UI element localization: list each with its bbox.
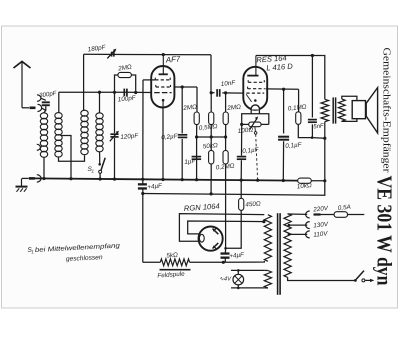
- svg-text:450Ω: 450Ω: [245, 200, 261, 208]
- antenna: [14, 62, 31, 69]
- socket (antenna direct): [38, 104, 42, 111]
- tube U2 screen (dashed): [247, 80, 249, 82]
- wire bus-to-B+ link: [210, 180, 212, 194]
- wire regen left leg: [83, 54, 85, 110]
- tube U2 grid-filament lead: [246, 94, 251, 102]
- capacitor 4uF (electrolytic): [142, 179, 144, 184]
- junction lamp-top: [237, 269, 240, 272]
- svg-text:AF7: AF7: [165, 54, 182, 64]
- socket (antenna via capacitor): [37, 95, 41, 102]
- tube U2 RES164 envelope: [243, 67, 267, 110]
- wire B+ return: [143, 181, 325, 195]
- wire grid line: [59, 91, 115, 93]
- socket 110V: [306, 231, 310, 238]
- transformer winding (rectifier filament): [264, 215, 271, 262]
- capacitor 10nF: [216, 89, 218, 97]
- svg-text:∿4V: ∿4V: [219, 277, 232, 283]
- svg-text:Gemeinschafts-Empfänger: Gemeinschafts-Empfänger: [380, 48, 391, 174]
- wire socket to capacitor: [41, 98, 46, 100]
- junction rect-output/450R: [224, 247, 227, 250]
- wire rectifier output: [225, 195, 227, 248]
- junction 100pF/gridleak: [134, 91, 137, 94]
- junction inner-loop: [262, 220, 265, 223]
- switch (mains): [354, 279, 357, 282]
- junction node/1uF: [195, 135, 198, 138]
- junction bus/S1: [99, 177, 102, 180]
- wire filament loop outer: [179, 214, 264, 242]
- resistor 0.5M: [210, 93, 212, 112]
- svg-text:0,5A: 0,5A: [337, 204, 351, 212]
- junction bus/0.1uF-anode: [282, 179, 285, 182]
- wire tap 220V: [288, 213, 308, 215]
- svg-text:1µF: 1µF: [184, 158, 197, 166]
- junction topline/5nF: [311, 54, 314, 57]
- wire to heater winding: [223, 261, 264, 262]
- transformer core: [277, 213, 279, 295]
- svg-text:5nF: 5nF: [313, 123, 324, 130]
- potentiometer 100R (hum): [242, 123, 249, 125]
- junction 5nF/0.1M: [311, 136, 314, 139]
- underline Feldspule: [160, 269, 191, 271]
- wire 5k to 4uF node: [190, 261, 224, 263]
- junction filament/bypass: [240, 123, 243, 126]
- junction node/50k: [210, 135, 213, 138]
- junction bus/antenna-coil: [42, 177, 45, 180]
- wire antenna to plug: [22, 107, 29, 109]
- wire to field node: [312, 137, 325, 140]
- wire lamp top: [231, 269, 264, 271]
- capacitor 5nF: [311, 56, 313, 118]
- tube U3 RGN1064 envelope: [199, 227, 223, 251]
- tube U3 anode strokes: [213, 229, 219, 235]
- tube U1 cathode: [162, 99, 165, 102]
- junction grid/LW-coil: [98, 91, 101, 94]
- junction bus/cathode: [161, 178, 164, 181]
- tube U1 AF7 envelope: [151, 66, 174, 108]
- resistor 5k (Feldspule): [160, 259, 189, 266]
- coil (reaction winding): [81, 110, 88, 116]
- wire 10nF to RES grid: [222, 92, 244, 94]
- wire bus to end-node: [311, 180, 325, 182]
- resistor 50k: [209, 150, 214, 164]
- junction regen/AF7-topcap: [162, 53, 165, 56]
- earth plug: [22, 177, 29, 179]
- wire pilot winding leads: [264, 269, 268, 271]
- wire lamp bottom: [231, 287, 264, 289]
- wire regen right leg: [210, 55, 212, 93]
- coil (antenna winding): [40, 113, 47, 119]
- switch S1: [98, 163, 101, 166]
- junction bus/coil-tap: [69, 177, 72, 180]
- transformer winding (pilot): [264, 271, 271, 289]
- wire primary bottom: [288, 277, 356, 280]
- resistor 2M (RES grid leak): [225, 93, 227, 112]
- junction bus/0.1uF: [181, 178, 184, 181]
- socket 220V: [306, 211, 310, 218]
- transformer winding (mains primary): [284, 214, 291, 278]
- plug 220V: [314, 213, 321, 215]
- variable capacitor 120pF (tuning): [114, 92, 116, 133]
- junction lamp-bottom: [237, 287, 240, 290]
- capacitor 0.1uF (anode): [181, 87, 183, 133]
- wire RES top line: [256, 55, 322, 57]
- wire ground bus: [35, 178, 298, 180]
- junction bus/4uF-line: [141, 178, 144, 181]
- junction bus-end: [323, 179, 326, 182]
- svg-text:VE 301 W dyn: VE 301 W dyn: [373, 176, 397, 286]
- resistor 450R: [240, 180, 242, 198]
- wire anode RES: [266, 88, 299, 90]
- socket (antenna tap): [37, 144, 41, 150]
- junction bus/tuning-cap: [113, 178, 116, 181]
- resistor 10k (in bus): [298, 178, 312, 183]
- wire secondary to voice coil: [342, 96, 357, 100]
- capacitor 1uF: [196, 137, 198, 180]
- junction 10nF/0.5M: [210, 91, 213, 94]
- wire divider node: [197, 136, 226, 138]
- lamp 4V: [233, 274, 244, 285]
- coil (long-wave winding): [96, 113, 103, 119]
- capacitor 4uF (electrolytic 2): [224, 248, 226, 253]
- tube U3 filament nub: [199, 234, 204, 242]
- junction bus/0.1uF-RES: [240, 179, 243, 182]
- tube U1 control grid bar: [154, 92, 171, 94]
- junction bus/hum-pot: [256, 179, 259, 182]
- junction B+/bus link: [210, 192, 213, 195]
- capacitor 100pF: [123, 89, 125, 97]
- junction grid/tuning-cap: [113, 91, 116, 94]
- junction anode/0.1uF: [181, 85, 184, 88]
- wire filament loop: [242, 114, 269, 125]
- junction 10nF/gridleak-RES: [224, 91, 227, 94]
- wire filament loop inner: [188, 221, 265, 234]
- resistor 0.1M: [298, 89, 300, 112]
- tube U1 anode (dashed): [155, 85, 157, 87]
- wire capacitor to coil: [44, 106, 46, 113]
- capacitor 300pF: [42, 101, 50, 103]
- wire screen-feed drop: [142, 80, 144, 179]
- wire B+ to field resistor: [143, 261, 161, 263]
- wire filament stubs: [250, 110, 252, 114]
- trimmer capacitor 180pF: [111, 52, 113, 57]
- junction field/feed: [323, 137, 326, 140]
- junction node/0.2M: [224, 135, 227, 138]
- tube U2 filament dot: [254, 99, 257, 102]
- tube U1 grid g3 (dashed): [154, 78, 156, 80]
- wire cathode to bus: [162, 108, 164, 180]
- capacitor 0.1uF (filament bypass): [241, 124, 243, 155]
- tube U2 top cap grid: [247, 75, 258, 77]
- wire screen feed: [143, 79, 155, 81]
- wire coil tap to bus: [61, 136, 72, 179]
- fuse 0.5A: [321, 214, 335, 216]
- resistor 0.2M: [223, 150, 228, 164]
- junction bus/1uF: [195, 178, 198, 181]
- junction anode-RES/0.1uF: [282, 88, 285, 91]
- wire tap 110V: [288, 233, 291, 236]
- plug (antenna): [30, 107, 36, 110]
- coil (grid winding): [55, 113, 62, 119]
- output transformer core: [332, 97, 334, 123]
- resistor 2M (anode load): [196, 87, 198, 112]
- choke (speaker field winding): [322, 56, 325, 100]
- loudspeaker: [352, 101, 365, 119]
- wire regen top line: [84, 53, 211, 56]
- tube U1 top cap grid: [159, 73, 168, 75]
- socket 130V: [306, 222, 310, 229]
- junction 4uF/B+ line: [141, 192, 144, 195]
- junction 4uF-2/heater line: [222, 261, 225, 264]
- wire tap 130V: [288, 224, 291, 227]
- output transformer secondary: [338, 99, 345, 121]
- resistor 2M (grid leak): [115, 75, 118, 92]
- wire hum-pot wiper to bus: [256, 134, 258, 180]
- ground: [21, 178, 23, 186]
- capacitor 0.1uF (anode RES): [283, 89, 285, 133]
- wire field node to bus-end: [324, 138, 326, 181]
- wire B+ down: [142, 194, 144, 263]
- svg-text:5kΩ: 5kΩ: [166, 252, 178, 260]
- wire anode AF7: [174, 86, 197, 88]
- wire 180pF-leg to 10nF: [211, 92, 215, 94]
- earth socket: [37, 175, 41, 182]
- tube U2 anode (dashed): [247, 87, 249, 89]
- tube U2 control grid (dashed): [246, 92, 264, 94]
- svg-text:L 416 D: L 416 D: [266, 62, 294, 73]
